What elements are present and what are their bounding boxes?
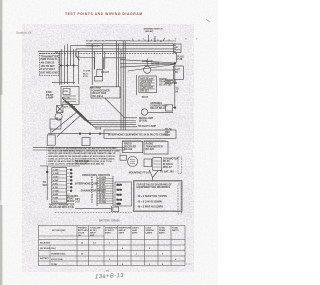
label below lamp [138, 117, 157, 128]
svg-text:8: 8 [162, 253, 163, 255]
wire diagonal fan to plug [120, 60, 175, 71]
control box BC-BOX [153, 158, 162, 171]
antenna terminal box top right [174, 44, 182, 53]
svg-text:22: 22 [70, 173, 72, 175]
svg-text:BC-442-A: BC-442-A [93, 95, 104, 98]
wire corner to relay 2 [104, 58, 127, 69]
svg-text:J-37: J-37 [75, 201, 80, 204]
svg-text:6 TEL: 6 TEL [53, 187, 59, 189]
coupling box [82, 138, 90, 146]
wire ant box drop [176, 53, 178, 63]
svg-text:25: 25 [70, 183, 72, 185]
radio receiver box BC-312 [123, 141, 143, 152]
antenna post box [174, 66, 184, 79]
svg-text:4 BAT: 4 BAT [53, 179, 59, 182]
wire tick row junctions [60, 65, 79, 66]
svg-text:49 + 8 MAR 45 5139PH: 49 + 8 MAR 45 5139PH [138, 206, 164, 209]
svg-text:AMP: AMP [90, 234, 95, 237]
svg-text:METER: METER [151, 62, 160, 65]
antenna changeover relay box BC-442 [91, 87, 120, 98]
svg-text:TO 58: TO 58 [117, 199, 122, 201]
svg-text:23: 23 [70, 176, 72, 178]
svg-text:RECEIVER: RECEIVER [165, 82, 177, 85]
label control box rows right [163, 157, 179, 168]
svg-text:TRANSMITTING: TRANSMITTING [51, 252, 66, 255]
svg-text:BC-223: BC-223 [146, 148, 155, 151]
wire vertical drops middle bundle [92, 41, 125, 130]
main tuning small box [47, 135, 55, 145]
svg-text:TO RECEIVER: TO RECEIVER [86, 45, 100, 47]
label rows above band [75, 160, 89, 165]
svg-text:CORD CD-307 PLUG PL-64 TO DYNA: CORD CD-307 PLUG PL-64 TO DYNAMOTOR PE-7… [48, 157, 115, 160]
wire corner to relay [80, 58, 95, 70]
wire meter top [146, 59, 148, 67]
svg-text:TO DYN: TO DYN [83, 71, 91, 73]
terminal ladder labels [99, 177, 106, 204]
svg-text:SHIELDED WIRE W-106 GROUND SHI: SHIELDED WIRE W-106 GROUND SHIELD AT BOT… [48, 155, 116, 158]
svg-text:KEY: KEY [43, 184, 48, 187]
svg-text:JB-70: JB-70 [117, 184, 122, 186]
svg-text:P-38: P-38 [177, 58, 183, 61]
wire bus dotted line [40, 52, 176, 54]
svg-text:SW-133: SW-133 [140, 89, 149, 92]
svg-text:WIRE W-128 ANT LEAD-IN THRU IN: WIRE W-128 ANT LEAD-IN THRU INSULATOR BO… [48, 160, 112, 163]
shock mount scallops [122, 140, 166, 141]
junction box J4 [144, 159, 152, 167]
table row labels [40, 242, 66, 266]
lamp I102 circle [141, 109, 147, 115]
wire jack box lead [135, 75, 137, 95]
wire arrow to right [148, 112, 173, 114]
label changeover relay right of lamp [150, 102, 167, 110]
jack box J3 [139, 76, 157, 92]
ladder left numbers [91, 176, 93, 204]
svg-text:CORD CD-318 TO KEY J-37 AND JU: CORD CD-318 TO KEY J-37 AND JUNCTION BOX… [48, 152, 116, 155]
svg-text:TO 57: TO 57 [142, 96, 149, 99]
page background [0, 0, 218, 285]
terminal ladder strip [97, 176, 113, 206]
svg-text:TO ANT. RELAY SW.: TO ANT. RELAY SW. [86, 39, 105, 42]
receiver output box [166, 105, 173, 111]
svg-text:VOICE TONE: VOICE TONE [51, 259, 63, 261]
svg-text:RELAY BK-22: RELAY BK-22 [150, 107, 166, 110]
wire bus line 5 [38, 50, 176, 52]
small box bottom center [75, 206, 119, 212]
label transmitter plug rows [41, 56, 59, 75]
label relay box rows [93, 89, 110, 97]
svg-text:45-90V: 45-90V [67, 200, 75, 203]
svg-text:6: 6 [109, 259, 110, 261]
wire diagonal top-left [75, 55, 80, 61]
terminal board labels [53, 168, 59, 203]
interphone equipment wide box [104, 130, 176, 138]
svg-text:2: 2 [109, 242, 110, 244]
svg-text:9: 9 [162, 264, 163, 266]
svg-text:2: 2 [149, 264, 150, 266]
label plug p38 [177, 55, 184, 61]
svg-text:BC-312: BC-312 [124, 148, 133, 151]
label ant current [142, 60, 160, 66]
table header texts [52, 227, 179, 237]
svg-text:27: 27 [70, 190, 72, 192]
small box left of connector [120, 155, 126, 160]
wire bundle diagonal route [52, 98, 137, 137]
svg-text:21: 21 [70, 169, 72, 171]
operators junction box [115, 182, 132, 206]
svg-text:TO BAT. 24V: TO BAT. 24V [160, 171, 174, 174]
wire drop antenna label [149, 35, 156, 41]
label right mid column [165, 128, 172, 137]
terminal board pin ticks [67, 170, 70, 202]
svg-text:NO.18 B+S GA WIRE BRAID SHIELD: NO.18 B+S GA WIRE BRAID SHIELD + GROUND … [48, 150, 120, 153]
svg-text:31 GRN: 31 GRN [99, 202, 106, 204]
radio transmitter box BC-223 [144, 141, 168, 154]
relay assembly K101 box [61, 86, 79, 104]
svg-text:SET OR EQUIP: SET OR EQUIP [52, 230, 66, 232]
svg-text:GND: GND [117, 204, 122, 206]
svg-text:49 + 8 JAN 45 5039PH: 49 + 8 JAN 45 5039PH [138, 200, 163, 203]
svg-text:(RELAY): (RELAY) [145, 30, 154, 33]
junction dots bus [148, 40, 162, 42]
wire vertical drops left bundle [60, 44, 79, 85]
svg-text:LAMP: LAMP [46, 96, 54, 100]
label left small rows [75, 195, 80, 204]
svg-text:24: 24 [70, 179, 72, 182]
svg-text:49 + 2 SHEET NO. 5037PH: 49 + 2 SHEET NO. 5037PH [138, 195, 168, 198]
svg-text:7 GND: 7 GND [53, 190, 59, 192]
table cell marks [81, 241, 177, 266]
wire bus line 1b [105, 40, 130, 42]
svg-text:WATTS: WATTS [172, 229, 179, 232]
terminal board tall box TB101 [52, 168, 67, 203]
wire long horizontals mid [33, 117, 125, 150]
svg-text:EQUIPMENT SEE DRAWINGS: EQUIPMENT SEE DRAWINGS [137, 186, 171, 189]
connector circle P101 [128, 157, 138, 167]
svg-text:2: 2 [149, 248, 150, 250]
ammeter M1 circle [144, 66, 151, 73]
wire meter right [151, 69, 175, 71]
svg-text:10 B+: 10 B+ [53, 201, 59, 203]
svg-text:8 BAT: 8 BAT [53, 193, 59, 196]
svg-text:PE-73: PE-73 [83, 73, 88, 75]
svg-text:BAT NEG GND: BAT NEG GND [41, 72, 59, 75]
svg-text:26: 26 [70, 187, 72, 189]
svg-text:OPERATORS JUNCTION: OPERATORS JUNCTION [82, 174, 110, 177]
svg-text:INTERPHONE CONT: INTERPHONE CONT [75, 183, 99, 186]
relay assembly labels [62, 91, 70, 104]
svg-text:AMPS: AMPS [132, 231, 138, 234]
svg-text:ANT. LAMP: ANT. LAMP [64, 105, 76, 108]
wire bus line 3 [71, 44, 176, 46]
svg-text:BATTERY: BATTERY [40, 257, 49, 260]
svg-text:RELAY: RELAY [101, 71, 109, 74]
svg-text:1 2 3 4 5 6 7: 1 2 3 4 5 6 7 [132, 37, 202, 40]
svg-text:75: 75 [106, 269, 110, 273]
svg-text:TO PILOT LAMP: TO PILOT LAMP [138, 125, 157, 128]
right border box upper [178, 157, 182, 174]
bottom dotted border [55, 212, 133, 214]
label feed cluster [83, 71, 91, 79]
junction box small [50, 119, 61, 129]
svg-text:1 ANT: 1 ANT [53, 168, 59, 171]
label radio receiver left [165, 79, 177, 85]
mounting Y wires [149, 170, 158, 181]
pilot lamp I101 crossed box [57, 106, 64, 113]
svg-text:MOUNTING FT-167: MOUNTING FT-167 [129, 172, 151, 175]
svg-text:(B-106): (B-106) [139, 119, 147, 122]
pilot lamp bulb circle [55, 113, 62, 120]
svg-text:LAMPS: LAMPS [146, 231, 153, 234]
wire bus line 2 [86, 43, 176, 45]
label radio transmitter right [159, 78, 176, 87]
wire bus top tick line [130, 37, 202, 41]
transmitter power plug box J1 [39, 54, 59, 76]
svg-text:2 GND: 2 GND [53, 173, 59, 175]
label radio receiver box rows [124, 143, 136, 152]
relay K102 boxes [95, 70, 103, 82]
label to key left [43, 181, 48, 187]
svg-text:AMPS: AMPS [119, 231, 125, 234]
svg-text:TO 57: TO 57 [117, 194, 122, 196]
svg-text:BC-AA-230 MTG FT-W: BC-AA-230 MTG FT-W [49, 206, 75, 209]
wire bus line 4 [76, 48, 176, 50]
terminal callout band rows [47, 145, 120, 166]
battery drain table [39, 226, 193, 266]
plug P-38 node [174, 62, 176, 108]
svg-text:RECEIVING ONLY: RECEIVING ONLY [40, 248, 57, 250]
svg-text:INTERPHONE EQUIPMENT RC-34 IN: INTERPHONE EQUIPMENT RC-34 IN PILOTS COM… [108, 133, 168, 136]
wire key lead [40, 166, 80, 200]
svg-text:MTG-37: MTG-37 [163, 166, 172, 169]
svg-text:51: 51 [91, 202, 93, 204]
note box title rows [137, 183, 173, 208]
label right of tall box [67, 195, 76, 203]
label below tall box [49, 203, 75, 208]
svg-text:BATTERY DRAIN: BATTERY DRAIN [99, 219, 120, 223]
label jack box rows [140, 77, 154, 92]
svg-text:CORD CD-786 TO OPERATORS JUNCT: CORD CD-786 TO OPERATORS JUNCTION BOX AN… [48, 163, 104, 166]
left scan edge streaks [0, 0, 2, 285]
svg-text:3 KEY: 3 KEY [53, 176, 59, 178]
svg-text:RECEIVING: RECEIVING [40, 242, 51, 244]
right border box lower [178, 184, 182, 214]
corner mark [206, 19, 210, 22]
svg-text:AMPS: AMPS [105, 231, 111, 234]
svg-text:27.5V: 27.5V [83, 76, 89, 78]
svg-text:TO 58: TO 58 [95, 128, 102, 131]
svg-text:1: 1 [136, 253, 137, 255]
svg-text:Section XII: Section XII [16, 31, 32, 35]
label pilot lamp [46, 90, 54, 100]
wire arrow receiver output [173, 107, 177, 109]
svg-text:5 MIC: 5 MIC [53, 183, 59, 185]
svg-text:TO 56: TO 56 [117, 189, 122, 191]
note box detailed drawings [134, 181, 183, 212]
svg-text:AMPS: AMPS [159, 231, 165, 234]
svg-text:TEST POINTS AND WIRING DIAGRAM: TEST POINTS AND WIRING DIAGRAM [65, 12, 143, 16]
svg-text:TOTAL: TOTAL [51, 263, 58, 266]
svg-text:9 ANT: 9 ANT [53, 196, 59, 199]
svg-text:POST: POST [174, 50, 180, 52]
label radio transmitter box rows [146, 143, 163, 152]
wire horizontal relay feed [52, 81, 75, 83]
